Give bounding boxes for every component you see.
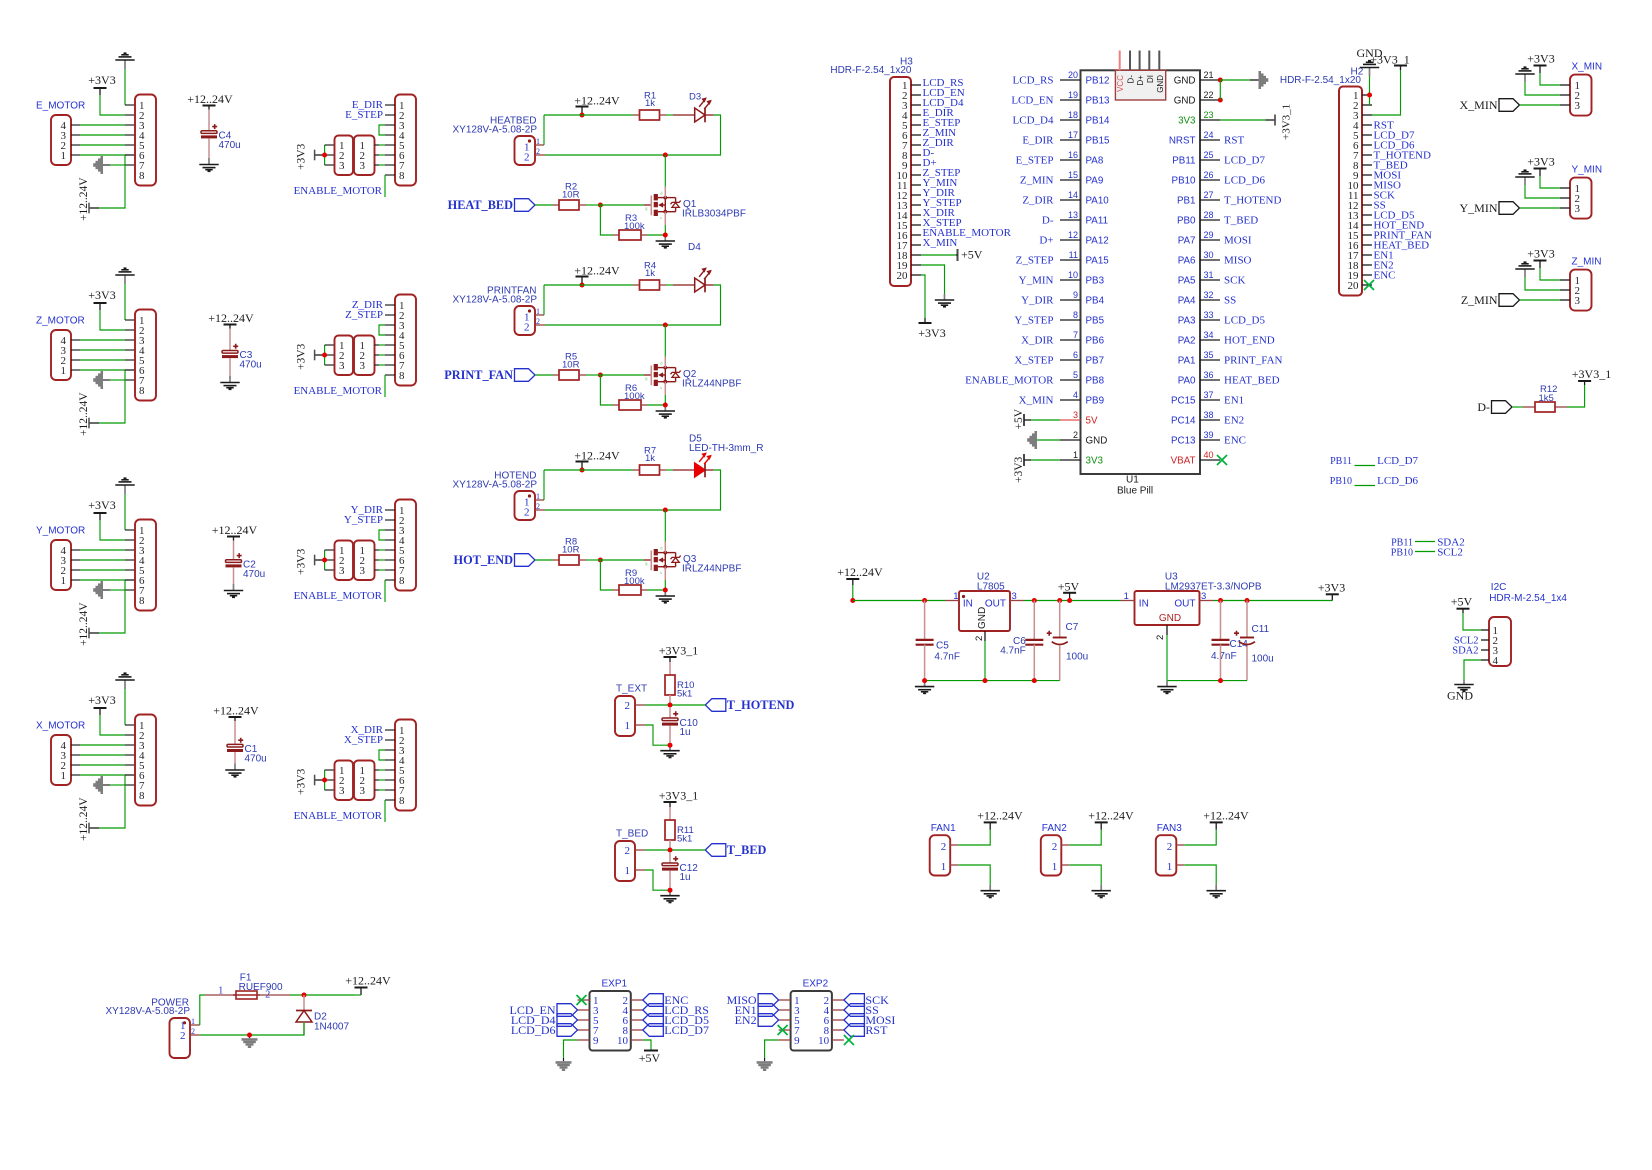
svg-text:PA1: PA1 [1178,355,1196,366]
svg-text:PB11: PB11 [1330,456,1352,467]
resistor R11 5k1 [669,807,671,820]
svg-text:14: 14 [1068,190,1078,200]
svg-text:5k1: 5k1 [677,689,692,700]
U1 pin 28 PB0 [1200,219,1220,221]
power +12..24V above capacitor C3 [229,325,231,329]
svg-text:3: 3 [1073,410,1078,420]
svg-text:11: 11 [1069,250,1078,260]
svg-text:8: 8 [399,575,405,587]
ground at H3 pin 19 [921,265,945,294]
junction C14 top [1218,598,1223,603]
LED diode of HOTEND driver [695,463,705,477]
svg-text:C11: C11 [1252,624,1270,635]
svg-text:+12..24V: +12..24V [213,704,259,718]
svg-text:X_STEP: X_STEP [344,734,383,746]
svg-text:PC14: PC14 [1171,415,1196,426]
wires Z_MOTOR to 8-pin header pins 3-6 [80,339,125,341]
U1 pin 5 PB8 [1060,379,1081,381]
svg-text:+3V3_1: +3V3_1 [1370,52,1409,66]
ground below FAN3 [1215,885,1217,891]
power +5V at U1 pin 3 [1023,414,1025,426]
svg-text:1k: 1k [645,268,655,279]
svg-text:GND: GND [1447,689,1473,703]
svg-text:T_HOTEND: T_HOTEND [727,698,795,712]
wire FAN3 pin1 to ground [1176,864,1184,866]
svg-text:+12..24V: +12..24V [212,523,258,537]
svg-text:X_MIN: X_MIN [1572,62,1603,73]
power +12..24V input of U2 [852,579,854,585]
resistor R3 100k gate pulldown [600,205,613,235]
U1 pin 30 PA6 [1200,259,1220,261]
wire R4 to LED [666,284,673,286]
wire Z_MIN pin2 to ground [1525,277,1560,290]
svg-text:8: 8 [139,385,145,397]
wire +12..24V to Z header pin8 [99,370,125,423]
svg-text:23: 23 [1204,110,1214,120]
LED diode of PRINTFAN driver [695,278,705,292]
svg-text:HDR-F-2.54_1x20: HDR-F-2.54_1x20 [1280,75,1362,86]
resistor R6 100k gate pulldown [600,375,613,405]
wire R12 to +3V3_1 [1567,385,1585,407]
svg-text:Y_MIN: Y_MIN [1572,165,1603,176]
svg-text:RST: RST [1224,135,1244,147]
svg-text:25: 25 [1204,150,1214,160]
no-connect X at EXP2 pin 10 [844,1035,854,1045]
port flag HOT_END [515,554,536,567]
svg-text:PA0: PA0 [1178,375,1196,386]
svg-text:MISO: MISO [1224,255,1252,267]
wire HEAT_BED to R2 [535,204,553,206]
svg-text:X_MIN: X_MIN [923,237,958,249]
power +3V3 for X jumper block [315,779,325,781]
U1 pin 39 PC13 [1200,439,1220,441]
wire gate node to MOSFET Q3 [586,559,600,561]
H3 pin 16 [911,234,921,236]
signal ground at Z header pin 7 [101,371,104,389]
port flag X_MIN [1499,99,1520,112]
svg-text:Z_STEP: Z_STEP [1016,255,1054,267]
junction at MOSFET drain net (HEATBED) [663,153,668,158]
wire R1 to LED [666,114,673,116]
svg-text:Z_DIR: Z_DIR [1022,195,1054,207]
U1 pin 9 PB4 [1060,299,1081,301]
svg-text:PRINT_FAN: PRINT_FAN [1224,355,1283,367]
svg-text:ENABLE_MOTOR: ENABLE_MOTOR [965,375,1054,387]
ground below FAN2 [1100,885,1102,891]
power +5V at EXP1 pin 10 [643,1040,651,1050]
ground rail below U3 [1167,680,1247,682]
ground below C5 [924,681,926,687]
svg-text:NRST: NRST [1169,135,1196,146]
H3 pin 6 [911,134,921,136]
svg-text:EN1: EN1 [1224,395,1244,407]
U1 pin 23 3V3 [1200,119,1220,121]
port flag T_HOTEND [705,699,726,712]
port flag Z_MIN [1499,294,1520,307]
svg-text:LCD_D7: LCD_D7 [1377,455,1418,467]
power +3V3 for X_MOTOR pin 2 [99,708,101,715]
H2 pin 18 [1362,264,1372,266]
svg-text:9: 9 [794,1035,800,1047]
EXP1 pin 7 [578,1029,590,1031]
svg-text:4.7nF: 4.7nF [934,652,960,663]
svg-text:2: 2 [265,990,270,1001]
wire PRINT_FAN to R5 [535,374,553,376]
wire fuse to +12..24V [290,994,354,996]
svg-text:PB12: PB12 [1086,75,1110,86]
svg-text:6: 6 [1073,350,1078,360]
junction gate node Q1 [598,203,603,208]
H3 pin 1 [911,84,921,86]
wire T_BED pin2 to junction [635,849,645,851]
svg-text:1k5: 1k5 [1539,393,1554,404]
svg-text:PRINT_FAN: PRINT_FAN [444,368,513,382]
svg-text:XY128V-A-5.08-2P: XY128V-A-5.08-2P [453,480,538,491]
ground below C12 [669,890,671,896]
svg-text:D-: D- [1042,215,1054,227]
wire drain of Q3 [664,510,666,542]
EXP2 pin 10 [832,1039,844,1041]
H2 pin 9 [1362,174,1372,176]
wires X jumper left pins [324,770,326,790]
svg-text:100u: 100u [1252,654,1274,665]
svg-text:8: 8 [139,170,145,182]
svg-text:+5V: +5V [961,248,983,262]
svg-text:s: s [660,570,662,575]
svg-text:ENC: ENC [1224,435,1246,447]
svg-text:IN: IN [963,599,973,610]
8-pin header X DIR/STEP [395,720,416,811]
svg-text:HEAT_BED: HEAT_BED [1224,375,1280,387]
svg-text:+3V3: +3V3 [296,768,308,795]
svg-text:+3V3_1: +3V3_1 [1281,104,1293,140]
svg-text:100k: 100k [624,391,645,402]
H2 pin 10 [1362,184,1372,186]
svg-text:PA6: PA6 [1178,255,1196,266]
U3 pin 2 GND stub [1166,625,1168,635]
H2 pin 20 [1362,284,1372,286]
junction +12..24V on HEATBED rail [580,113,585,118]
wire T_BED pin1 to ground node [635,869,645,871]
svg-text:8: 8 [1073,310,1078,320]
wire loop E header pin3-pin4 [379,125,385,135]
ground below Q1 [664,235,666,241]
junction C6 top [1032,598,1037,603]
power +3V3 for Z_MOTOR pin 2 [99,303,101,310]
power +3V3 for E jumper block [315,154,325,156]
svg-text:32: 32 [1204,290,1214,300]
U1 pin 20 PB12 [1060,79,1081,81]
svg-text:1: 1 [1052,861,1058,873]
U1 pin 14 PA10 [1060,199,1081,201]
svg-text:Z_MOTOR: Z_MOTOR [36,316,85,327]
U1 pin 35 PA1 [1200,359,1220,361]
junction source/R3 node [663,233,668,238]
svg-text:+5V: +5V [1058,579,1080,593]
svg-text:24: 24 [1204,130,1214,140]
junction ground net POWER [247,1033,252,1038]
wire U3 output rail [1214,600,1333,602]
svg-text:s: s [660,385,662,390]
H2 pin 1 [1362,94,1372,96]
svg-text:5: 5 [1073,370,1078,380]
svg-text:5k1: 5k1 [677,834,692,845]
wire X_MOTOR pin1 to ground [124,689,126,725]
svg-text:+3V3: +3V3 [918,326,945,340]
capacitor C10 1u [669,707,671,718]
signal ground at E header pin 7 [101,156,104,174]
svg-text:PA3: PA3 [1178,315,1196,326]
U1 pin 27 PB1 [1200,199,1220,201]
svg-text:PB10: PB10 [1172,175,1197,186]
port flag LCD_RS at EXP1 pin 4 [643,1004,664,1017]
capacitor C6 4.7nF [1033,601,1035,641]
H3 pin 20 [911,274,921,276]
svg-text:PB10: PB10 [1391,548,1413,559]
signal ground at U1 pin 2 [1035,431,1038,449]
U1 pin 19 PB13 [1060,99,1081,101]
svg-text:X_MIN: X_MIN [1460,98,1498,112]
svg-text:PB14: PB14 [1086,115,1111,126]
capacitor C2 470u [233,541,235,560]
net label ENABLE_MOTOR at Z header pin 8 [384,375,386,397]
svg-text:C7: C7 [1066,622,1079,633]
wire drain of Q1 [664,155,666,187]
8-pin header Z DIR/STEP [395,295,416,386]
wire U1 pin22 GND [1218,98,1223,103]
wires Z jumper right pins to header pins 5-7 [375,344,380,346]
EXP2 pin 5 [779,1019,791,1021]
svg-text:+12..24V: +12..24V [187,92,233,106]
svg-text:D-: D- [1127,75,1136,84]
svg-text:30: 30 [1204,250,1214,260]
wire FAN1 pin2 to +12..24V [950,844,958,846]
U1 pin 38 PC14 [1200,419,1220,421]
resistor R8 10R [553,559,559,561]
svg-text:+12..24V: +12..24V [78,797,90,841]
svg-text:+3V3: +3V3 [1527,51,1554,65]
svg-text:PA4: PA4 [1178,295,1196,306]
junction source/R6 node [663,403,668,408]
svg-text:2: 2 [1073,430,1078,440]
svg-text:GND: GND [1086,435,1108,446]
svg-text:PC13: PC13 [1171,435,1196,446]
ground below capacitor C2 [233,584,235,591]
EXP2 pin 1 [779,999,791,1001]
svg-text:GND: GND [977,607,988,629]
wire source of Q3 to ground [664,567,666,580]
8-pin motor header (X axis) [135,715,156,806]
power +12..24V at POWER input [360,988,362,996]
U1 pin 17 PB15 [1060,139,1081,141]
svg-text:12: 12 [1068,230,1078,240]
svg-text:40: 40 [1204,450,1214,460]
power +12..24V above FAN3 [1215,822,1217,829]
power +12..24V for E header pin 8 [89,207,99,209]
svg-text:+3V3: +3V3 [296,143,308,170]
svg-text:FAN1: FAN1 [931,823,956,834]
svg-text:T_BED: T_BED [1224,215,1258,227]
wire +12..24V to X header pin8 [99,775,125,828]
H2 pin 2 [1362,104,1372,106]
H2 pin 19 [1362,274,1372,276]
junction dot on U3 ground rail [1218,678,1223,683]
junction D2 top [302,993,307,998]
H3 pin 7 [911,144,921,146]
EXP1 pin 10 [631,1039,643,1041]
H3 pin 14 [911,214,921,216]
svg-text:4.7nF: 4.7nF [1211,651,1237,662]
U1 pin 26 PB10 [1200,179,1220,181]
svg-text:LCD_D6: LCD_D6 [1224,175,1265,187]
ground below FAN1 [989,885,991,891]
svg-text:8: 8 [139,790,145,802]
port flag PRINT_FAN [515,369,536,382]
wires E jumper left pins [324,145,326,165]
capacitor C12 1u [669,852,671,863]
no-connect X at H2 pin 20 [1364,280,1374,290]
junction +5V stem [1067,598,1072,603]
svg-text:5V: 5V [1086,415,1098,426]
svg-text:4.7nF: 4.7nF [1000,646,1026,657]
svg-text:HEAT_BED: HEAT_BED [448,198,513,212]
capacitor C14 4.7nF [1220,601,1222,641]
port flag SCK at EXP2 pin 2 [844,994,865,1007]
U1 pin 40 VBAT [1200,459,1220,461]
capacitor C11 100u [1246,601,1248,638]
power +5V on U2 output [1069,593,1071,601]
svg-text:8: 8 [399,370,405,382]
U1 pin 15 PA9 [1060,179,1081,181]
svg-text:1: 1 [625,720,631,732]
U1 pin 31 PA5 [1200,279,1220,281]
svg-text:PA8: PA8 [1086,155,1104,166]
MOSFET Q3 IRLZ44NPBF [650,551,652,571]
EXP1 pin 9 [578,1039,590,1041]
port flag EN1 at EXP2 pin 3 [758,1004,779,1017]
svg-text:EXP2: EXP2 [803,979,829,990]
net label ENABLE_MOTOR at X header pin 8 [384,800,386,822]
power +3V3_1 above R10 [669,657,671,662]
svg-text:Z_MIN: Z_MIN [1572,257,1602,268]
svg-text:PB5: PB5 [1086,315,1105,326]
svg-text:GND: GND [1174,75,1196,86]
svg-text:+12..24V: +12..24V [78,602,90,646]
resistor R10 5k1 [669,662,671,675]
svg-text:3V3: 3V3 [1178,115,1196,126]
svg-text:20: 20 [1068,70,1078,80]
ground above Z_MIN pin2 [1524,269,1526,277]
svg-text:2: 2 [1052,841,1058,853]
port flag RST at EXP2 pin 8 [844,1024,865,1037]
svg-text:Y_STEP: Y_STEP [344,514,383,526]
8-pin header Y DIR/STEP [395,500,416,591]
svg-text:IRLZ44NPBF: IRLZ44NPBF [682,379,741,390]
svg-text:4: 4 [1493,655,1499,667]
wire junction to T_BED [670,849,705,851]
U1 pin 22 GND [1200,99,1220,101]
junction Z jumper +3V3 [322,353,327,358]
svg-text:HDR-F-2.54_1x20: HDR-F-2.54_1x20 [830,65,912,76]
svg-text:GND: GND [1156,75,1165,93]
U2 pin 2 GND stub [984,631,986,641]
H2 pin 3 [1362,114,1372,116]
H3 pin 18 [911,254,921,256]
svg-text:LCD_EN: LCD_EN [1011,95,1053,107]
wires Y jumper left pins [324,550,326,570]
svg-text:U1: U1 [1126,475,1139,486]
junction ground node C12 [668,888,673,893]
capacitor C7 100u [1059,601,1061,638]
wire LED cathode down to pin2 net (HEATBED) [545,115,721,155]
wire HEATBED pin1 to rail [535,144,544,146]
svg-text:+5V: +5V [1451,595,1473,609]
svg-text:+12..24V: +12..24V [1203,809,1249,823]
svg-text:8: 8 [139,595,145,607]
U1 pin 24 NRST [1200,139,1220,141]
capacitor C1 470u [234,721,236,744]
svg-text:10: 10 [1068,270,1078,280]
svg-text:1k: 1k [645,98,655,109]
signal ground below POWER [249,1035,251,1038]
wire Z_MIN flag to pin3 [1520,299,1561,301]
wire HOTEND pin1 to rail [535,499,544,501]
wire T_EXT pin2 to junction [635,704,645,706]
junction C7 top [1057,598,1062,603]
svg-text:PA11: PA11 [1086,215,1109,226]
H3 pin 4 [911,114,921,116]
U1 debug pins (VCC D- D+ DI GND) [1119,51,1121,71]
wire Y_MOTOR pin1 to ground [124,494,126,530]
diode D2 1N4007 [303,995,305,1011]
svg-text:+5V: +5V [1013,408,1025,429]
junction C11 top [1245,598,1250,603]
power +3V3 at U1 pin 1 [1023,454,1025,466]
svg-text:18: 18 [1068,110,1078,120]
wires Z jumper left pins [324,345,326,365]
svg-text:ENABLE_MOTOR: ENABLE_MOTOR [294,810,383,822]
power +12..24V for X header pin 8 [89,827,99,829]
svg-text:ENABLE_MOTOR: ENABLE_MOTOR [294,385,383,397]
power +12..24V above FAN1 [989,822,991,829]
U1 pin 25 PB11 [1200,159,1220,161]
wire PRINTFAN pin1 to rail [535,314,544,316]
wire +3V3 to Z_MIN pin1 [1540,268,1560,280]
H3 pin 17 [911,244,921,246]
svg-text:IN: IN [1139,599,1149,610]
svg-text:PC15: PC15 [1171,395,1196,406]
H2 pin 7 [1362,154,1372,156]
wire input rail to U2 [853,600,945,602]
ground below Q3 [664,590,666,596]
ground below C10 [669,745,671,751]
svg-text:+3V3_1: +3V3_1 [1572,367,1611,381]
H3 pin 5 [911,124,921,126]
svg-text:1: 1 [941,861,947,873]
svg-text:PB9: PB9 [1086,395,1105,406]
svg-text:X_STEP: X_STEP [1014,355,1053,367]
H3 pin 8 [911,154,921,156]
svg-text:MOSI: MOSI [1224,235,1252,247]
svg-text:+12..24V: +12..24V [208,311,254,325]
svg-text:1N4007: 1N4007 [314,1021,349,1032]
wire U1 pin23 3V3 to +3V3_1 [1220,119,1266,121]
EXP1 pin 8 [631,1029,643,1031]
EXP2 pin 6 [832,1019,844,1021]
port flag EN2 at EXP2 pin 5 [758,1014,779,1027]
svg-text:C5: C5 [936,641,949,652]
H2 pin 14 [1362,224,1372,226]
